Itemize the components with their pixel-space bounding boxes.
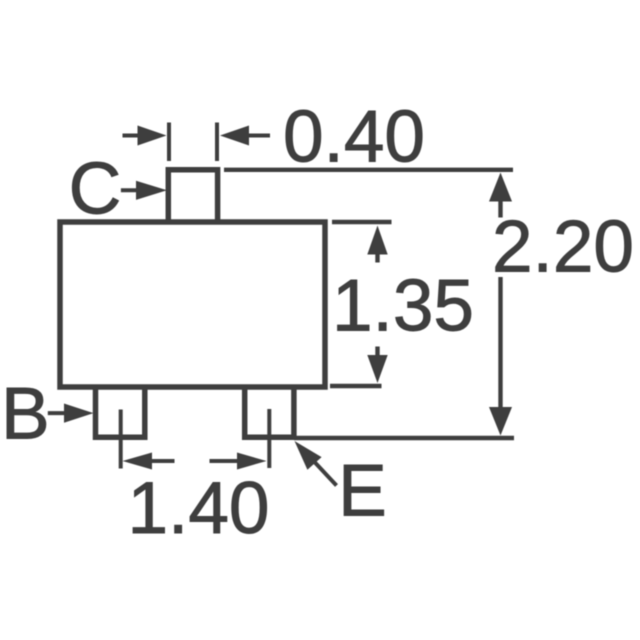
svg-text:E: E [338,451,387,532]
dim 1.35 dimension line (lower segment) [375,347,379,357]
svg-text:0.40: 0.40 [283,97,425,178]
leader arrow from label E to emitter pin corner [315,462,337,486]
svg-text:B: B [1,374,50,455]
dim 0.40 left arrow [123,134,141,138]
svg-text:1.40: 1.40 [127,468,269,549]
leader arrow from label C to collector tab [121,188,140,192]
dim 1.40 left arrow [152,459,175,463]
dim 1.35 top extension line [332,220,392,224]
dim 1.35 dimension line (upper segment) [375,254,379,263]
dim 1.35 down arrowhead [367,355,387,383]
collector tab pin [168,170,217,222]
dim 0.40 left extension line [167,123,171,162]
leader arrow from label B to base pin [48,411,66,415]
dim 2.20 down arrowhead [489,407,512,436]
svg-text:1.35: 1.35 [332,266,474,347]
dim 1.35 up arrowhead [367,226,387,255]
dim 2.20 bottom extension line [294,436,514,440]
dim 2.20 top extension line [224,168,513,172]
base pin (bottom left lead) [96,387,145,438]
dim 2.20 dimension line (upper segment) [498,202,502,218]
svg-text:C: C [69,149,122,230]
dim 2.20 dimension line (lower segment) [498,277,502,407]
dim 2.20 up arrowhead [489,173,512,202]
base pin centerline [119,410,123,469]
package body [60,222,325,387]
dim 1.35 bottom extension line [330,384,382,388]
dim 0.40 right extension line [215,123,219,162]
dim 0.40 right arrow [249,134,270,138]
dim 1.40 right arrow [210,459,239,463]
svg-text:2.20: 2.20 [492,207,634,288]
emitter pin centerline [267,409,271,468]
emitter pin (bottom right lead) [245,387,294,438]
